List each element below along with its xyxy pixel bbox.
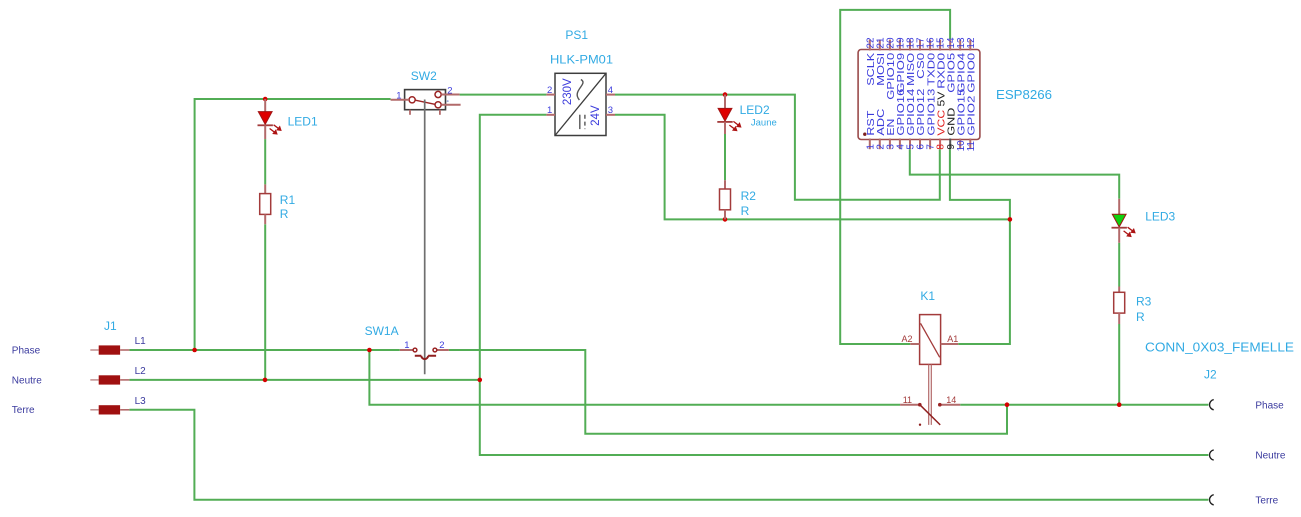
svg-text:12: 12 — [966, 37, 977, 49]
ESP pin 18 top stub — [909, 40, 911, 51]
svg-text:K1: K1 — [920, 289, 935, 303]
LED2 triangle — [718, 108, 732, 121]
LED3 anode stub — [1118, 199, 1120, 215]
svg-text:4: 4 — [608, 85, 613, 96]
junction Phase / SW1A-relay branch — [367, 348, 372, 353]
ESP pin 20 top stub — [889, 40, 891, 51]
wire SW1A pin2 around to relay output — [449, 350, 1007, 434]
svg-text:3: 3 — [608, 105, 613, 116]
svg-text:A2: A2 — [902, 334, 913, 344]
ESP pin 6 bottom stub — [919, 139, 921, 150]
LED3 emission arrows — [1124, 227, 1135, 236]
LED3 triangle — [1112, 214, 1126, 227]
switch SW2 body — [405, 90, 446, 110]
svg-text:LED2: LED2 — [740, 103, 770, 117]
ESP pin 13 top stub — [959, 40, 961, 51]
junction GND T-node — [1008, 217, 1013, 222]
wire L2 Neutre from J1 — [129, 379, 479, 381]
PS1 pin2 stub — [546, 94, 555, 96]
switch SW2 throw circle pin2 — [435, 91, 441, 97]
SW1A pin1 stub — [400, 349, 413, 351]
wire GPIO5: ESP pin14 to relay A2 — [840, 10, 950, 344]
SW2 unconnected pin stub — [441, 104, 460, 106]
relay contact point 14 — [938, 403, 942, 407]
svg-text:R3: R3 — [1136, 294, 1152, 308]
svg-text:R: R — [741, 204, 750, 218]
relay A1 stub — [941, 343, 959, 345]
wire L1 Phase from J1 to SW1A pin1 — [129, 349, 399, 351]
svg-text:Jaune: Jaune — [751, 117, 777, 128]
ESP pin 21 top stub — [879, 40, 881, 51]
LED2 emission arrows — [729, 121, 740, 130]
SW2 origin mark — [447, 100, 449, 102]
ESP pin 17 top stub — [919, 40, 921, 51]
LED1 triangle — [258, 112, 272, 125]
ESP pin 10 bottom stub — [959, 139, 961, 150]
wire LED3 cathode to R3 — [1118, 243, 1120, 287]
svg-text:1: 1 — [396, 90, 401, 101]
mechanical link SW2-SW1A — [424, 100, 426, 375]
wire LED1 cathode to R1 — [264, 139, 266, 184]
wire Phase to relay contact pin11 — [369, 350, 900, 405]
LED1 anode stub — [264, 99, 266, 112]
wire R1 bottom to Neutre — [264, 224, 266, 380]
svg-text:R2: R2 — [741, 189, 757, 203]
ESP pin 1 bottom stub — [869, 139, 871, 150]
PS1 pin4 stub — [606, 94, 615, 96]
LED2 anode stub — [724, 95, 726, 109]
connector J1 pin L3 right lead — [120, 409, 129, 411]
switch SW2 pole circle pin1 — [409, 97, 415, 103]
ESP pin 14 top stub — [949, 40, 951, 51]
ESP pin 5 bottom stub — [909, 139, 911, 150]
SW2 mount stub left — [409, 110, 411, 115]
svg-text:11: 11 — [903, 395, 912, 405]
svg-text:1: 1 — [547, 105, 552, 116]
connector J2 pin Phase arc — [1210, 400, 1214, 410]
SW1A button cap — [415, 356, 436, 359]
relay contact pin11 stub — [900, 404, 920, 406]
resistor R3 body — [1114, 292, 1125, 313]
ESP pin 11 bottom stub — [969, 139, 971, 150]
PS1 diagonal — [555, 73, 606, 135]
ESP pin 22 top stub — [869, 40, 871, 51]
svg-text:Terre: Terre — [12, 405, 35, 416]
resistor R3 top stub — [1118, 287, 1120, 293]
svg-text:24V: 24V — [590, 105, 602, 126]
connector J1 pin L2 left lead — [90, 379, 98, 381]
svg-text:Neutre: Neutre — [12, 375, 42, 386]
PS1 pin3 stub — [606, 114, 615, 116]
wire Neutre down and right to J2 — [480, 380, 1209, 455]
svg-text:11: 11 — [966, 141, 977, 152]
relay contact blade — [920, 405, 940, 425]
ESP pin 7 bottom stub — [929, 139, 931, 150]
resistor R2 bottom stub — [724, 210, 726, 220]
LED2 cathode bar — [717, 121, 732, 123]
resistor R3 bottom stub — [1118, 313, 1120, 324]
svg-text:2: 2 — [547, 85, 552, 96]
svg-text:L2: L2 — [135, 366, 147, 377]
svg-text:SW2: SW2 — [411, 69, 437, 83]
switch SW2 blade — [415, 100, 435, 104]
junction Phase riser — [192, 348, 197, 353]
SW1A pin2 circle — [433, 348, 437, 352]
wire SW2 pin2 to PS1 pin2 — [460, 94, 547, 96]
PS1 DC symbol dashed line — [584, 115, 586, 129]
SW2 pin1 stub — [391, 99, 409, 101]
junction LED2 / VCC wire — [723, 92, 728, 97]
svg-text:14: 14 — [946, 395, 956, 405]
svg-text:Terre: Terre — [1255, 496, 1278, 507]
ESP pin 2 bottom stub — [879, 139, 881, 150]
relay K1 coil body — [920, 315, 941, 365]
LED1 cathode stub — [264, 125, 266, 139]
svg-text:PS1: PS1 — [565, 28, 588, 42]
svg-text:J2: J2 — [1204, 367, 1217, 381]
junction R1 / Neutre — [263, 378, 268, 383]
resistor R1 bottom stub — [264, 214, 266, 224]
wire VCC 24V: PS1 pin4 to ESP pin8 — [615, 95, 940, 200]
ESP pin 19 top stub — [899, 40, 901, 51]
wire GND: PS1 pin3 to T-node — [615, 115, 1010, 220]
relay K1 coil diagonal — [921, 323, 940, 357]
ESP pin 8 bottom stub — [939, 139, 941, 150]
svg-text:A1: A1 — [947, 334, 958, 344]
connector J1 pin L3 left lead — [90, 409, 98, 411]
SW1A pin2 stub — [437, 349, 449, 351]
ESP pin 12 top stub — [969, 40, 971, 51]
PS1 pin1 stub — [546, 114, 555, 116]
svg-text:J1: J1 — [104, 319, 117, 333]
svg-text:LED3: LED3 — [1145, 210, 1175, 224]
svg-text:L3: L3 — [135, 396, 147, 407]
resistor R2 top stub — [724, 180, 726, 189]
ESP pin 4 bottom stub — [899, 139, 901, 150]
connector J1 pin L1 right lead — [120, 349, 129, 351]
junction PS1 pin1 / Neutre — [478, 378, 483, 383]
ESP pin 3 bottom stub — [889, 139, 891, 150]
svg-text:L1: L1 — [135, 336, 147, 347]
svg-text:Phase: Phase — [1255, 401, 1284, 412]
LED2 cathode stub — [724, 122, 726, 134]
svg-text:GPIO0: GPIO0 — [966, 53, 978, 93]
svg-text:R1: R1 — [280, 193, 296, 207]
PS1 AC sine symbol — [577, 80, 583, 101]
LED1 cathode bar — [258, 124, 273, 126]
junction R3 / phase-out — [1117, 402, 1122, 407]
svg-text:2: 2 — [447, 85, 452, 96]
svg-text:CONN_0X03_FEMELLE: CONN_0X03_FEMELLE — [1145, 341, 1294, 355]
svg-text:Neutre: Neutre — [1255, 451, 1285, 462]
PS1 DC symbol solid line — [579, 115, 581, 129]
ESP8266 pin1 marker dot — [863, 133, 866, 136]
IC U1 ESP8266 body — [858, 50, 980, 140]
relay actuator link — [929, 364, 932, 425]
svg-text:R: R — [280, 207, 289, 221]
svg-text:230V: 230V — [562, 78, 574, 105]
switch SW2 throw circle NC — [435, 102, 441, 108]
relay contact pin14 stub — [940, 404, 960, 406]
power module PS1 body — [555, 73, 606, 135]
wire L3 Terre from J1 to J2 — [129, 410, 1208, 500]
junction R2 / GND wire — [723, 217, 728, 222]
connector J1 pin L2 body — [99, 375, 120, 384]
svg-text:GPIO2: GPIO2 — [966, 95, 978, 135]
wire R3 bottom to phase-out node — [1118, 324, 1120, 405]
svg-text:Phase: Phase — [12, 345, 41, 356]
ESP pin 16 top stub — [929, 40, 931, 51]
svg-text:1: 1 — [404, 340, 409, 351]
svg-text:ESP8266: ESP8266 — [996, 88, 1052, 102]
LED3 cathode stub — [1118, 228, 1120, 243]
connector J1 pin L3 body — [99, 405, 120, 414]
wire GND: ESP pin9 down to relay A1 — [950, 149, 1010, 344]
wire LED2 cathode to R2 — [724, 134, 726, 180]
svg-text:R: R — [1136, 310, 1145, 324]
connector J2 pin Terre arc — [1210, 495, 1214, 505]
resistor R2 body — [720, 189, 731, 210]
svg-text:2: 2 — [439, 340, 444, 351]
junction LED1 / top phase wire — [263, 97, 268, 102]
resistor R1 body — [260, 194, 271, 215]
SW2 mount stub right — [439, 110, 441, 115]
SW2 pin2 stub — [441, 94, 459, 96]
junction relay output / SW1A branch — [1005, 402, 1010, 407]
connector J1 pin L2 right lead — [120, 379, 129, 381]
relay contact point 11 — [918, 403, 922, 407]
SW1A pin1 circle — [413, 348, 417, 352]
wire relay pin14 to J2 Phase — [960, 404, 1208, 406]
relay NO position dot — [919, 424, 921, 426]
wire Phase riser up-left to SW2 pin1 — [195, 99, 391, 350]
LED3 cathode bar — [1112, 227, 1127, 229]
svg-text:SW1A: SW1A — [365, 324, 399, 338]
ESP pin 15 top stub — [939, 40, 941, 51]
relay A2 stub — [910, 343, 919, 345]
wire PS1 pin1 down to Neutre net — [480, 115, 547, 380]
connector J2 pin Neutre arc — [1210, 450, 1214, 460]
connector J1 pin L1 left lead — [90, 349, 98, 351]
wire GPIO14: ESP pin5 to LED3 — [910, 149, 1119, 199]
ESP pin 9 bottom stub — [949, 139, 951, 150]
svg-text:LED1: LED1 — [288, 115, 318, 129]
LED1 emission arrows — [270, 125, 281, 134]
svg-text:HLK-PM01: HLK-PM01 — [550, 52, 613, 66]
connector J1 pin L1 body — [99, 345, 120, 354]
resistor R1 top stub — [264, 184, 266, 193]
